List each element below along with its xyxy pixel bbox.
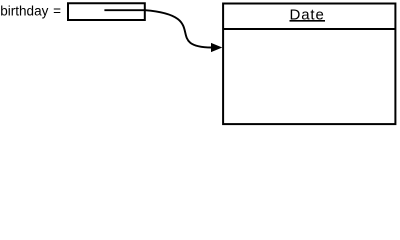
arrowhead — [211, 43, 222, 52]
object box Date — [223, 4, 395, 125]
underline — [290, 20, 326, 22]
reference line and curve — [104, 10, 211, 47]
header separator — [223, 28, 395, 30]
svg-text:birthday =: birthday = — [0, 4, 61, 19]
variable box birthday — [68, 3, 145, 20]
